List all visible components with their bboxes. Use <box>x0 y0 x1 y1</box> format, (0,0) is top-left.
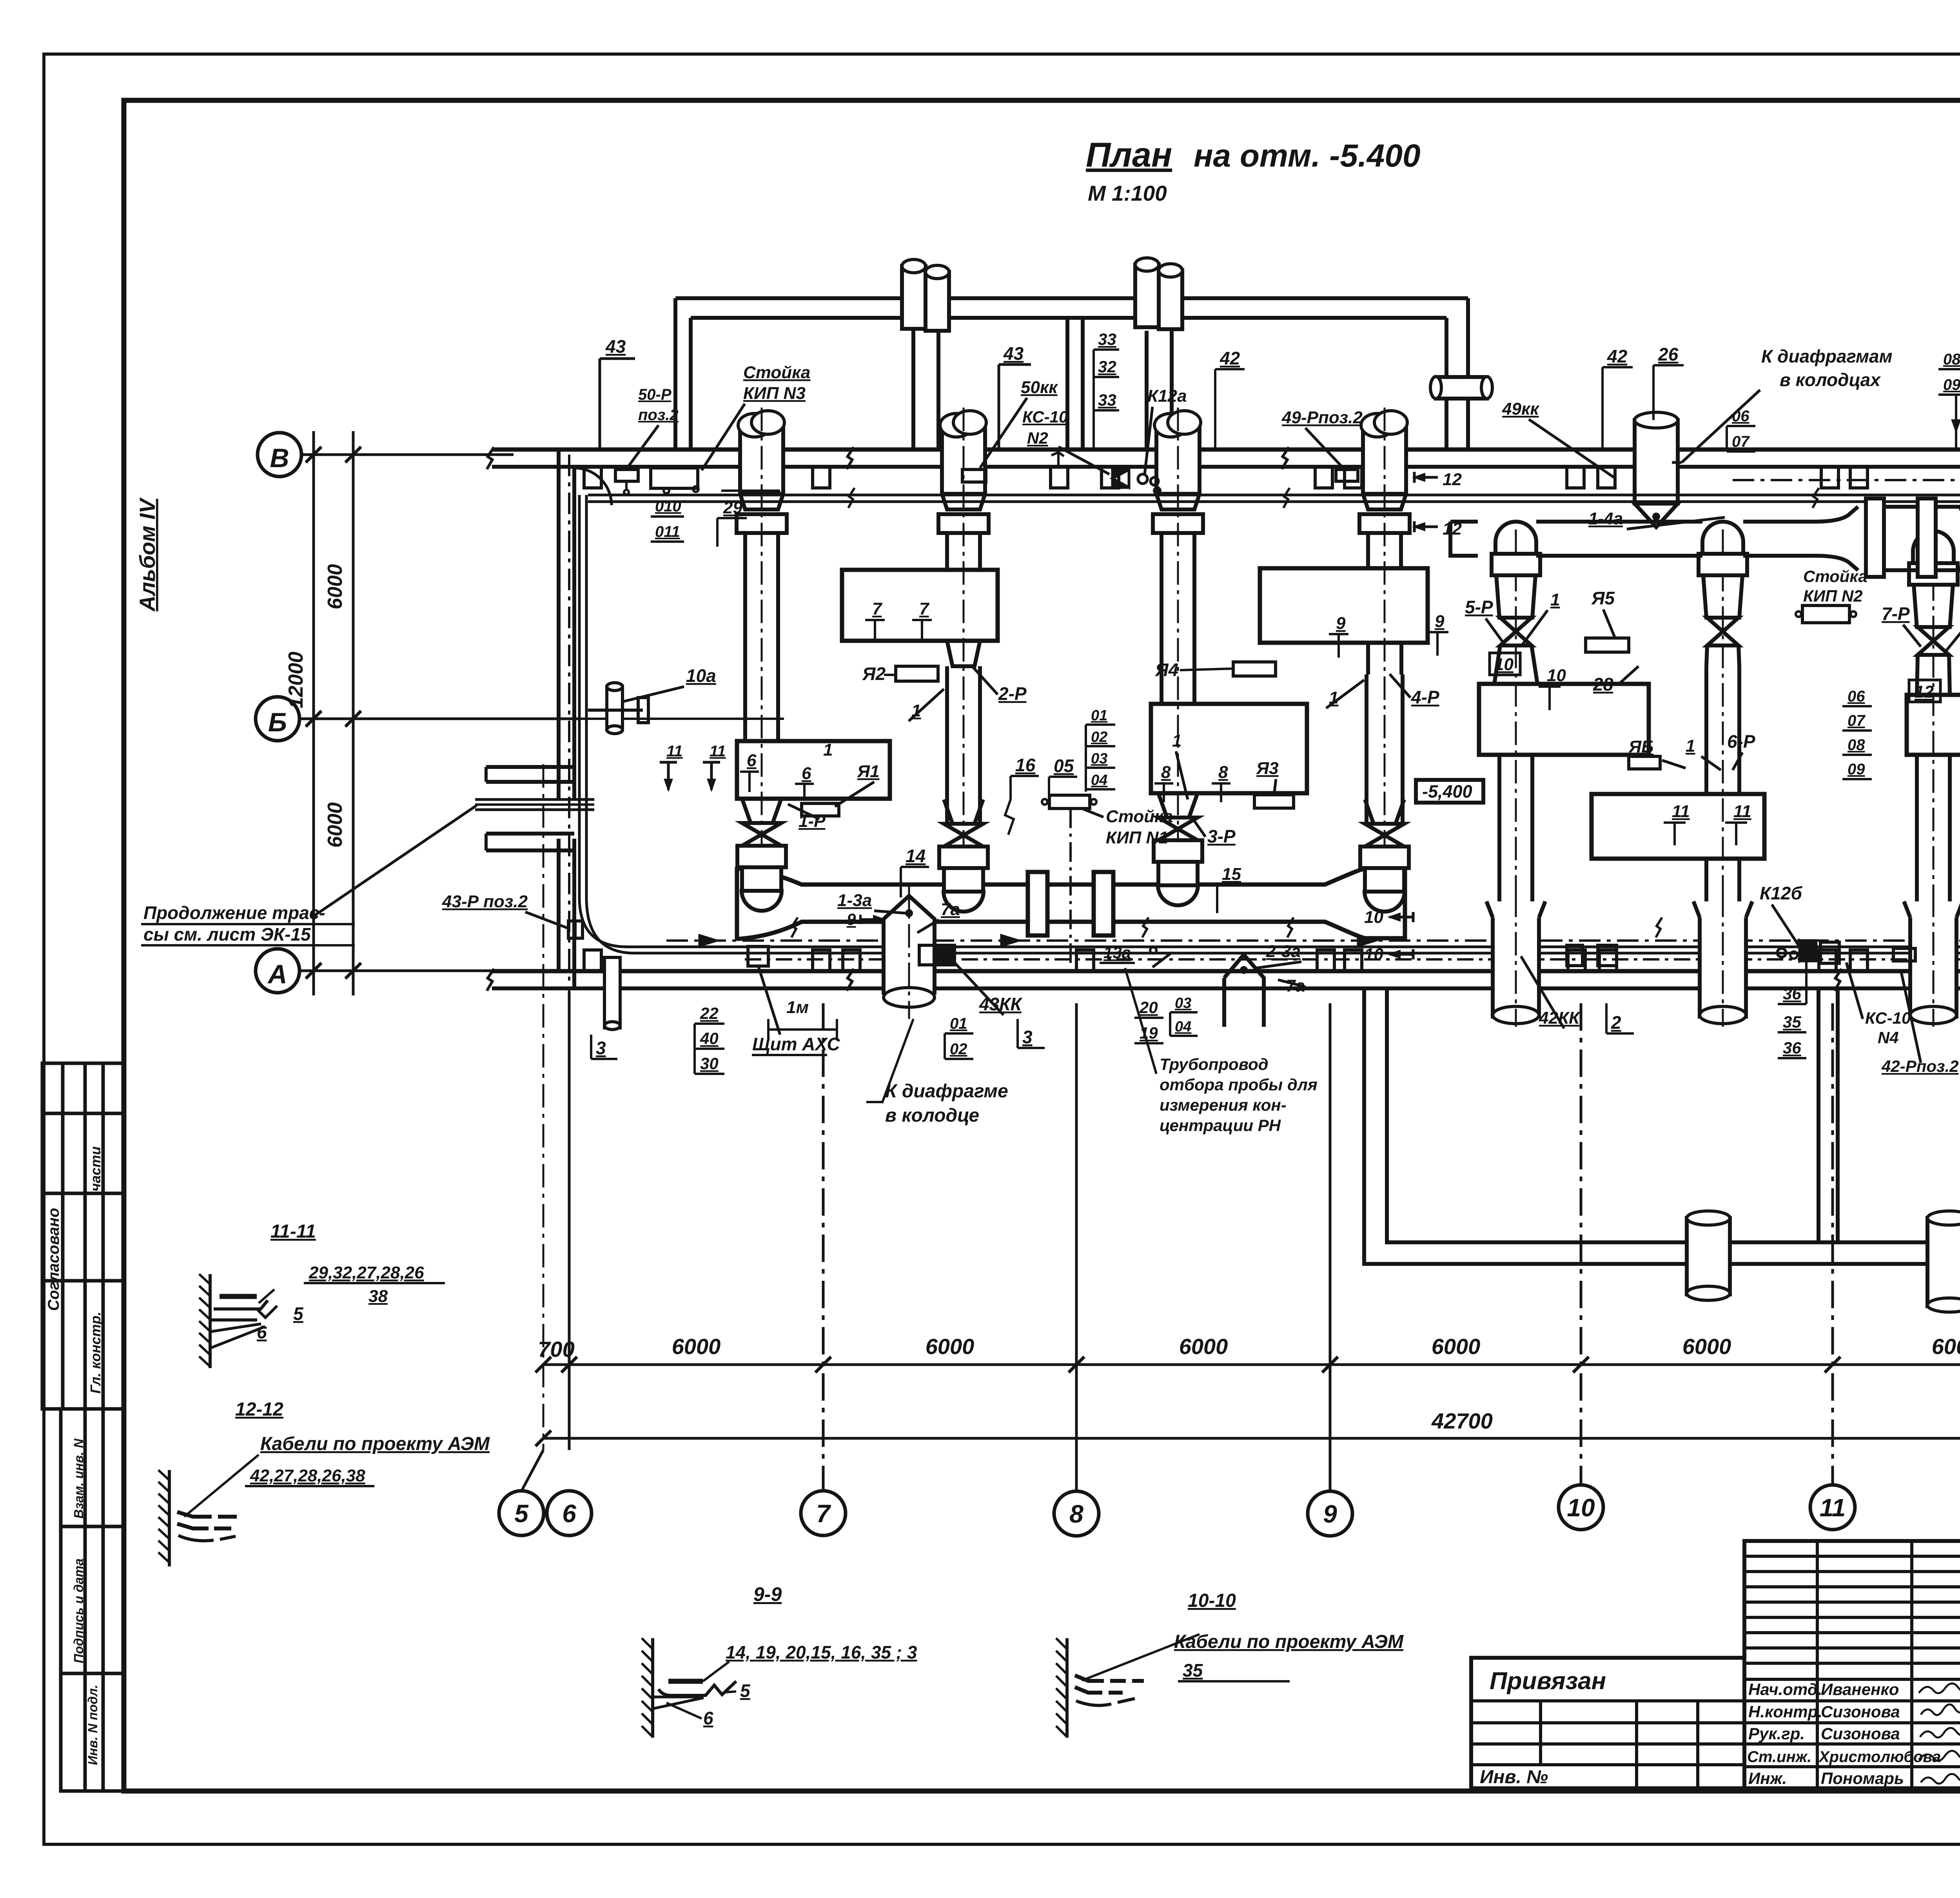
svg-text:33: 33 <box>1098 330 1116 348</box>
label Ya5 plate <box>1586 638 1629 652</box>
valve + suction stack at x=1943 <box>742 799 781 823</box>
svg-text:К12б: К12б <box>1760 883 1802 903</box>
svg-text:Нач.отд.: Нач.отд. <box>1748 1680 1822 1699</box>
svg-text:отбора пробы для: отбора пробы для <box>1160 1075 1318 1094</box>
svg-text:10: 10 <box>1567 1494 1595 1522</box>
svg-text:04: 04 <box>1175 1019 1191 1035</box>
axis V circle <box>258 433 301 477</box>
svg-text:КС-10: КС-10 <box>1865 1009 1911 1027</box>
top discharge pipe loop <box>675 296 1468 300</box>
axis B line through building <box>578 718 784 720</box>
pump column through-wall pipe at x=2458 <box>942 425 985 494</box>
zigzag mark near KS10 <box>1051 452 1064 468</box>
svg-text:20: 20 <box>1139 998 1158 1017</box>
label -5.400 <box>1416 780 1483 803</box>
svg-text:12: 12 <box>1443 519 1462 538</box>
svg-text:38: 38 <box>368 1287 388 1306</box>
tray arrows bottom <box>699 935 717 946</box>
equipment box 1 <box>737 741 890 799</box>
svg-text:33: 33 <box>1098 391 1116 409</box>
KS-10 N2 device <box>1112 470 1129 488</box>
svg-text:7: 7 <box>816 1499 831 1528</box>
svg-text:К диафрагме: К диафрагме <box>885 1081 1008 1102</box>
svg-text:части: части <box>87 1146 103 1191</box>
detail 11-11 brackets <box>220 1294 257 1299</box>
svg-text:03: 03 <box>1091 750 1107 767</box>
wall break marks <box>487 447 494 469</box>
svg-text:36: 36 <box>1783 984 1801 1003</box>
equipment box 4 <box>1260 568 1428 643</box>
svg-text:11: 11 <box>666 743 683 760</box>
svg-text:09: 09 <box>1943 376 1960 393</box>
svg-text:10а: 10а <box>686 665 716 686</box>
svg-text:50-Р: 50-Р <box>638 386 671 403</box>
svg-text:07: 07 <box>1847 712 1866 729</box>
svg-text:В: В <box>270 443 289 473</box>
svg-text:6000: 6000 <box>926 1334 975 1359</box>
svg-text:08: 08 <box>1847 736 1865 754</box>
svg-text:05: 05 <box>1054 756 1074 776</box>
svg-text:Подпись и дата: Подпись и дата <box>71 1559 86 1664</box>
svg-text:40: 40 <box>700 1029 719 1048</box>
tray break marks top <box>848 488 855 508</box>
svg-text:1-4а: 1-4а <box>1588 509 1623 528</box>
svg-text:Я3: Я3 <box>1256 759 1279 778</box>
svg-text:10: 10 <box>1494 655 1514 674</box>
svg-text:14: 14 <box>906 846 926 866</box>
svg-text:9: 9 <box>847 910 856 928</box>
svg-text:12000: 12000 <box>285 652 307 709</box>
svg-text:Щит АХС: Щит АХС <box>752 1034 840 1054</box>
svg-text:49кк: 49кк <box>1502 399 1540 419</box>
svg-text:Кабели по проекту АЭМ: Кабели по проекту АЭМ <box>1174 1632 1404 1652</box>
slanted line to circle 5 <box>521 1450 543 1491</box>
svg-text:35: 35 <box>1783 1013 1801 1031</box>
pump column through-wall pipe at x=3532 <box>1363 425 1406 494</box>
riser pump 3 to top pipe <box>1145 331 1149 450</box>
svg-text:Б: Б <box>268 707 287 737</box>
svg-text:3: 3 <box>1022 1027 1033 1047</box>
svg-text:6000: 6000 <box>1932 1334 1960 1359</box>
loop crossing sleeve 2 <box>1927 1218 1960 1306</box>
svg-text:на отм. -5.400: на отм. -5.400 <box>1194 138 1421 174</box>
detail 12-12 cables <box>177 1512 237 1517</box>
sleeve on right leg of top pipe <box>1436 377 1487 399</box>
wall-crossing bottle pipe at x=4932 <box>1910 917 1956 1019</box>
svg-text:50кк: 50кк <box>1021 378 1058 397</box>
below-building pipe loop outer <box>1364 988 1960 1264</box>
svg-text:КС-10: КС-10 <box>1022 408 1068 426</box>
equipment box 6 <box>1592 794 1764 859</box>
svg-text:22: 22 <box>700 1004 719 1022</box>
svg-text:N2: N2 <box>1027 429 1048 447</box>
wall-crossing bottle pipe at x=4395 <box>1700 917 1746 1019</box>
axis A circle <box>256 949 299 993</box>
svg-text:11: 11 <box>1672 802 1690 821</box>
sample line down <box>1069 809 1072 964</box>
left privyazan block <box>1471 1658 1744 1788</box>
svg-text:6: 6 <box>562 1499 576 1528</box>
group2 pump dome at x=4932 <box>1933 539 1935 897</box>
detail 9-9 brackets <box>668 1679 703 1684</box>
leader to continuation note <box>312 805 477 917</box>
svg-text:10: 10 <box>1364 945 1383 964</box>
svg-text:Иваненко: Иваненко <box>1821 1680 1899 1699</box>
svg-text:1: 1 <box>823 740 833 760</box>
svg-text:6000: 6000 <box>672 1334 721 1359</box>
svg-text:2: 2 <box>1611 1012 1621 1033</box>
svg-text:1: 1 <box>1686 736 1695 756</box>
svg-text:29,32,27,28,26: 29,32,27,28,26 <box>309 1263 424 1282</box>
device 50-R <box>615 470 638 481</box>
labels 10 10 box5 <box>1490 653 1520 675</box>
axis11 drop pipe to loop <box>1817 988 1820 1240</box>
svg-text:07: 07 <box>1732 433 1750 450</box>
funnel 1-3a pipe <box>884 896 935 995</box>
svg-text:35: 35 <box>1183 1660 1203 1680</box>
svg-text:К диафрагмам: К диафрагмам <box>1761 346 1893 366</box>
svg-text:43: 43 <box>1003 343 1024 364</box>
ticks on dim line 1 <box>535 1357 1960 1446</box>
svg-text:08: 08 <box>1943 351 1960 368</box>
svg-text:Ст.инж.: Ст.инж. <box>1747 1748 1811 1766</box>
label ЯБ plate <box>1629 756 1660 769</box>
svg-text:Гл. констр.: Гл. констр. <box>87 1312 103 1394</box>
top cable tray run <box>588 494 1960 497</box>
svg-text:Пономарь: Пономарь <box>1821 1769 1904 1787</box>
svg-text:6: 6 <box>257 1322 267 1342</box>
svg-text:6-Р: 6-Р <box>1727 731 1755 752</box>
svg-text:центрации РН: центрации РН <box>1160 1116 1281 1135</box>
svg-text:КИП N1: КИП N1 <box>1106 828 1168 847</box>
svg-text:5: 5 <box>293 1303 304 1324</box>
svg-text:04: 04 <box>1091 772 1107 789</box>
svg-text:Стойка: Стойка <box>1803 567 1867 586</box>
axis V line <box>301 453 514 456</box>
svg-text:6000: 6000 <box>324 564 347 609</box>
svg-text:Я4: Я4 <box>1155 660 1178 680</box>
bottom cable tray run <box>627 946 1960 948</box>
svg-text:Продолжение трас-: Продолжение трас- <box>143 903 325 923</box>
svg-text:Взам. инв. N: Взам. инв. N <box>71 1438 86 1519</box>
svg-text:28: 28 <box>1593 674 1613 694</box>
svg-text:011: 011 <box>655 523 680 540</box>
pump column through-wall pipe at x=3005 <box>1156 425 1200 494</box>
svg-text:06: 06 <box>1847 688 1865 705</box>
svg-text:11: 11 <box>1820 1494 1846 1522</box>
svg-text:30: 30 <box>700 1054 719 1073</box>
svg-text:11: 11 <box>1733 802 1751 821</box>
svg-text:Трубопровод: Трубопровод <box>1160 1055 1269 1073</box>
svg-text:42,27,28,26,38: 42,27,28,26,38 <box>250 1466 365 1485</box>
svg-text:А: А <box>267 959 287 989</box>
building bottom wall (axis A) <box>492 969 1960 973</box>
middle riser to wall <box>1065 318 1069 450</box>
svg-text:Кабели по проекту АЭМ: Кабели по проекту АЭМ <box>260 1434 490 1454</box>
svg-text:11-11: 11-11 <box>270 1221 316 1242</box>
device 42-R <box>1893 948 1915 961</box>
left vestibule walls <box>486 765 574 769</box>
svg-text:Привязан: Привязан <box>1490 1668 1606 1695</box>
detail 10-10 wall hatch <box>1065 1638 1069 1738</box>
svg-text:13а: 13а <box>1103 943 1131 962</box>
valve + suction stack at x=3005 <box>1158 793 1198 818</box>
svg-text:1: 1 <box>1550 590 1560 609</box>
valve + suction stack at x=2458 <box>944 799 983 824</box>
expansion joint cylinders on riser 3 <box>1135 265 1159 327</box>
svg-text:Стойка: Стойка <box>1106 807 1173 826</box>
svg-text:в колодцах: в колодцах <box>1780 370 1881 390</box>
svg-text:КИП N3: КИП N3 <box>743 384 806 403</box>
svg-text:700: 700 <box>538 1337 574 1361</box>
detail 10-10 cables <box>1075 1675 1144 1681</box>
wall-crossing bottle pipe at x=3867 <box>1493 917 1539 1019</box>
svg-text:15: 15 <box>1222 865 1241 884</box>
svg-text:9: 9 <box>1323 1500 1337 1528</box>
svg-text:6000: 6000 <box>324 802 347 848</box>
tray break marks bottom <box>791 917 798 937</box>
svg-text:1м: 1м <box>786 998 809 1017</box>
svg-text:7: 7 <box>872 599 883 618</box>
wall pilasters <box>584 467 601 488</box>
axis A line <box>299 970 514 972</box>
svg-text:42: 42 <box>1220 348 1240 368</box>
label Ya4 plate <box>1233 662 1276 676</box>
svg-text:План: План <box>1086 135 1172 174</box>
svg-text:6: 6 <box>747 751 757 770</box>
svg-text:Стойка: Стойка <box>743 363 810 382</box>
dim line total <box>543 1437 1960 1440</box>
svg-text:Инв. №: Инв. № <box>1480 1767 1548 1787</box>
svg-text:К12а: К12а <box>1147 386 1187 406</box>
group2 pump dome at x=3867 <box>1515 529 1517 897</box>
svg-text:03: 03 <box>1175 995 1191 1012</box>
svg-text:7а: 7а <box>941 900 960 919</box>
riser pump 2 to top pipe <box>911 331 915 450</box>
axis B line <box>299 718 578 720</box>
svg-text:12: 12 <box>1915 682 1934 702</box>
svg-text:06: 06 <box>1732 408 1749 425</box>
svg-text:поз.2: поз.2 <box>638 406 679 424</box>
svg-text:42КК: 42КК <box>1539 1008 1581 1028</box>
left vertical tray <box>578 495 581 897</box>
manifold end plate <box>1403 866 1407 941</box>
equipment box 3 <box>1151 704 1307 793</box>
svg-text:42: 42 <box>1607 346 1628 366</box>
svg-text:ЯБ: ЯБ <box>1628 737 1653 756</box>
equipment box 7 <box>1907 695 1960 755</box>
detail 11-11 wall hatch <box>209 1274 212 1368</box>
svg-text:1-3а: 1-3а <box>837 891 872 910</box>
well pipe 1-4a cylinder <box>1635 420 1678 504</box>
svg-text:010: 010 <box>655 498 681 515</box>
svg-text:Я5: Я5 <box>1591 588 1615 608</box>
signature grid <box>1744 1541 1960 1788</box>
svg-text:Инв. N подл.: Инв. N подл. <box>85 1685 100 1765</box>
svg-text:Инж.: Инж. <box>1748 1769 1787 1787</box>
tray exit through left wall <box>475 798 594 801</box>
detail 12-12 wall hatch <box>168 1470 171 1566</box>
svg-text:29: 29 <box>723 498 742 517</box>
svg-text:14, 19, 20,15, 16, 35 ; 3: 14, 19, 20,15, 16, 35 ; 3 <box>726 1642 917 1662</box>
dim line bays <box>543 1363 1960 1366</box>
svg-text:N4: N4 <box>1878 1028 1899 1047</box>
svg-text:9-9: 9-9 <box>753 1583 782 1605</box>
svg-text:32: 32 <box>1098 357 1116 376</box>
svg-text:10: 10 <box>1547 666 1566 685</box>
svg-text:6000: 6000 <box>1179 1334 1228 1359</box>
svg-text:1: 1 <box>1172 731 1181 750</box>
equipment box 5 <box>1479 684 1649 755</box>
device 42kk <box>1567 945 1583 966</box>
svg-text:7: 7 <box>919 599 930 618</box>
svg-text:сы см. лист ЭК-15: сы см. лист ЭК-15 <box>143 924 311 944</box>
building left wall <box>557 450 561 799</box>
svg-text:16: 16 <box>1015 755 1036 775</box>
loop crossing sleeve 1 <box>1687 1218 1730 1294</box>
svg-text:КИП N2: КИП N2 <box>1803 587 1863 605</box>
svg-text:10-10: 10-10 <box>1188 1590 1236 1611</box>
svg-text:-5,400: -5,400 <box>1422 781 1472 801</box>
svg-text:4-Р: 4-Р <box>1411 687 1439 707</box>
building top wall (axis V) <box>492 448 1960 452</box>
valve + suction stack at x=3532 <box>1365 799 1404 824</box>
detail 9-9 wall hatch <box>651 1638 654 1738</box>
header collars right <box>1866 499 1884 577</box>
suction manifold group 1 <box>735 867 739 941</box>
svg-text:6000: 6000 <box>1682 1334 1731 1359</box>
svg-text:6: 6 <box>703 1708 713 1728</box>
svg-text:Сизонова: Сизонова <box>1821 1702 1900 1721</box>
svg-text:6000: 6000 <box>1432 1334 1481 1359</box>
funnel 1-4a <box>1635 504 1678 527</box>
svg-text:09: 09 <box>1847 761 1865 778</box>
svg-text:10: 10 <box>1364 908 1383 927</box>
manifold collars <box>1028 872 1047 935</box>
axis B circle <box>256 697 299 741</box>
svg-text:01: 01 <box>950 1015 967 1032</box>
svg-text:7-Р: 7-Р <box>1882 604 1910 624</box>
svg-text:02: 02 <box>950 1041 967 1058</box>
labels 12 12 box7 <box>1909 680 1940 702</box>
svg-text:42700: 42700 <box>1431 1409 1493 1433</box>
vertical dim line outer <box>312 431 315 995</box>
svg-text:5-Р: 5-Р <box>1465 597 1493 617</box>
funnel 2-3a pipe <box>1224 955 1264 1003</box>
left below-wall pipe stub <box>604 957 620 1028</box>
svg-text:49-Рпоз.2: 49-Рпоз.2 <box>1281 408 1363 427</box>
svg-text:02: 02 <box>1091 729 1107 745</box>
below-building pipe loop inner <box>1387 988 1960 1242</box>
vertical dim line inner <box>352 431 355 995</box>
svg-text:3-Р: 3-Р <box>1207 826 1236 847</box>
svg-text:9: 9 <box>1336 614 1346 633</box>
label Ya2 plate <box>896 666 938 681</box>
svg-text:Согласовано: Согласовано <box>45 1208 62 1311</box>
extension verticals at each axis <box>543 764 544 1450</box>
svg-text:11: 11 <box>710 743 726 760</box>
svg-text:43: 43 <box>605 336 626 357</box>
svg-text:12-12: 12-12 <box>235 1399 283 1420</box>
device 10a <box>607 687 622 730</box>
expansion joint cylinders on riser 2 <box>902 266 926 329</box>
device 43kk <box>939 945 955 965</box>
svg-text:измерения кон-: измерения кон- <box>1160 1096 1287 1114</box>
K12a device <box>1138 474 1147 484</box>
svg-text:8: 8 <box>1069 1500 1083 1528</box>
svg-text:в колодце: в колодце <box>885 1105 979 1126</box>
svg-text:Рук.гр.: Рук.гр. <box>1748 1724 1805 1743</box>
svg-text:Я1: Я1 <box>857 762 880 781</box>
device near K12b <box>1800 941 1816 961</box>
svg-text:2-Р: 2-Р <box>998 683 1027 704</box>
svg-text:3: 3 <box>596 1038 606 1058</box>
equipment box 2 <box>842 570 998 641</box>
svg-text:26: 26 <box>1658 344 1679 364</box>
svg-text:43-Р поз.2: 43-Р поз.2 <box>442 892 528 911</box>
device 50kk <box>962 470 986 482</box>
svg-text:12: 12 <box>1443 470 1462 489</box>
svg-text:Сизонова: Сизонова <box>1821 1724 1900 1743</box>
svg-text:2-3а: 2-3а <box>1266 942 1301 961</box>
svg-text:36: 36 <box>1783 1039 1801 1057</box>
svg-text:01: 01 <box>1091 707 1107 724</box>
svg-text:5: 5 <box>514 1499 529 1528</box>
svg-text:8: 8 <box>1218 763 1228 782</box>
pump4 lower pipe <box>1368 643 1401 674</box>
stoyka KIP N1 device <box>1049 795 1090 809</box>
svg-text:6: 6 <box>802 764 811 783</box>
group2 pump dome at x=4395 <box>1722 529 1724 897</box>
shield AHS device + label <box>748 946 768 966</box>
axis circles bottom <box>499 1485 1960 1536</box>
signatures <box>1919 1683 1960 1784</box>
svg-text:Н.контр.: Н.контр. <box>1748 1702 1822 1721</box>
svg-text:Альбом IV: Альбом IV <box>135 497 160 612</box>
svg-text:М 1:100: М 1:100 <box>1088 181 1167 205</box>
group2 header pipe <box>1450 520 1815 524</box>
door swing top-left corner <box>574 468 612 505</box>
svg-text:8: 8 <box>1161 763 1171 782</box>
ticks <box>306 447 361 979</box>
svg-text:9: 9 <box>1435 612 1445 631</box>
KIP N3 stand device <box>651 468 698 488</box>
device 43-R <box>568 921 583 938</box>
pump column through-wall pipe at x=1943 <box>740 425 783 494</box>
pump2 lower pipe <box>947 641 980 666</box>
svg-text:5: 5 <box>740 1680 751 1701</box>
svg-text:Я2: Я2 <box>862 663 886 684</box>
